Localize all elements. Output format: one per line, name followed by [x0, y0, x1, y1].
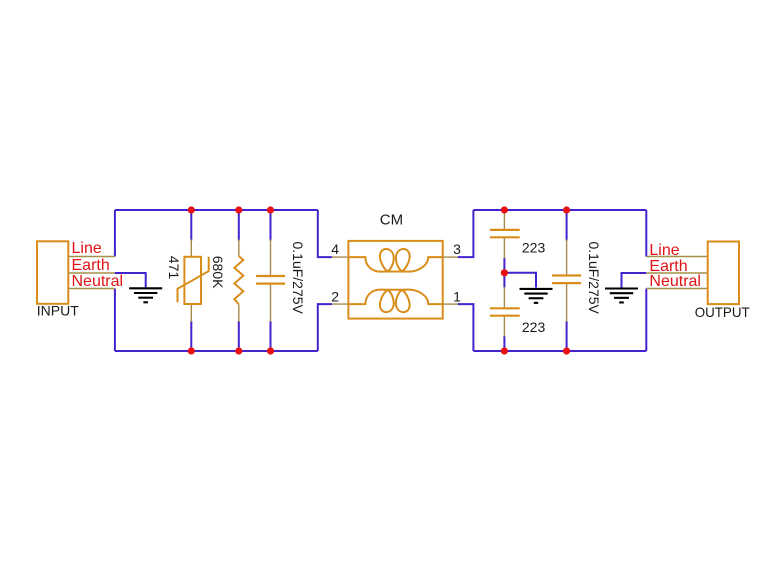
wire choke pin3 to top rail	[458, 210, 474, 257]
capacitor C4 plates	[552, 276, 581, 284]
junction dots	[188, 206, 571, 354]
wire Y-cap mid node upper	[503, 258, 505, 273]
pin stub input Neutral	[68, 288, 115, 290]
wire bottom rail left section	[115, 350, 318, 352]
node Y-cap midpoint	[501, 269, 508, 276]
node bottom rail varistor	[188, 347, 195, 354]
varistor RV1 lead bottom	[190, 304, 192, 322]
pin stub input Earth	[68, 272, 115, 274]
node bottom rail C4	[563, 347, 570, 354]
connector J2 OUTPUT box	[708, 242, 739, 305]
wire resistor bottom	[238, 321, 240, 351]
svg-text:471: 471	[166, 256, 182, 280]
choke pin 2 lead	[332, 303, 349, 305]
node top rail resistor	[235, 206, 242, 213]
svg-text:0.1uF/275V: 0.1uF/275V	[586, 242, 602, 315]
choke pin 4 lead	[332, 256, 349, 258]
node bottom rail C3	[501, 347, 508, 354]
svg-text:Neutral: Neutral	[649, 273, 701, 290]
varistor RV1 body	[178, 257, 209, 304]
node top rail C2	[501, 206, 508, 213]
choke bottom winding	[348, 290, 442, 313]
wire right X-cap top	[566, 210, 568, 241]
wire right vertical Neutral to bottom rail	[645, 289, 647, 352]
svg-text:0.1uF/275V: 0.1uF/275V	[290, 242, 306, 315]
wire left vertical Line to top rail	[114, 210, 116, 257]
common-mode choke CM body	[348, 241, 442, 319]
svg-text:Neutral: Neutral	[72, 273, 124, 290]
capacitor C4 lead bottom	[566, 284, 568, 322]
svg-text:INPUT: INPUT	[37, 302, 79, 318]
wire choke pin2 to bottom rail	[318, 304, 332, 351]
wire left X-cap bottom	[270, 321, 272, 351]
wire varistor top	[190, 210, 192, 241]
wire choke pin1 to bottom rail	[458, 304, 474, 351]
choke pin 1 lead	[443, 303, 458, 305]
capacitor C1 lead top	[270, 240, 272, 275]
capacitor C2 lead lower	[503, 238, 505, 259]
wire right X-cap bottom	[566, 321, 568, 351]
capacitor C2 (223 top) lead upper	[503, 211, 505, 229]
pin stub output Line	[646, 256, 708, 258]
svg-text:4: 4	[331, 241, 339, 257]
node bottom rail C1	[267, 347, 274, 354]
wire input earth to ground	[115, 273, 146, 287]
ground center	[520, 289, 553, 303]
capacitor C2 plates	[490, 230, 520, 237]
capacitor C4 lead top	[566, 240, 568, 275]
node top rail varistor	[188, 206, 195, 213]
choke top winding	[348, 249, 442, 272]
node top rail C1	[267, 206, 274, 213]
pin stub output Earth	[646, 272, 708, 274]
svg-text:1: 1	[453, 288, 461, 304]
wire bottom rail right section	[473, 350, 646, 352]
node top rail C4	[563, 206, 570, 213]
svg-text:Earth: Earth	[72, 257, 110, 274]
wire top rail right section	[473, 209, 646, 211]
ground output earth	[605, 289, 638, 303]
wire choke pin4 to top rail	[318, 210, 332, 257]
resistor R1 lead bottom	[238, 304, 240, 322]
wire left vertical Neutral to bottom rail	[114, 289, 116, 352]
wire output earth to ground	[622, 273, 647, 288]
svg-text:Line: Line	[649, 242, 679, 259]
capacitor C1 lead bottom	[270, 285, 272, 322]
svg-text:223: 223	[522, 240, 546, 256]
svg-text:2: 2	[331, 288, 339, 304]
node bottom rail resistor	[235, 347, 242, 354]
svg-text:3: 3	[453, 241, 461, 257]
wire varistor bottom	[190, 321, 192, 351]
varistor RV1 lead top	[190, 240, 192, 257]
capacitor C1 plates	[256, 276, 285, 284]
wire resistor top	[238, 210, 240, 241]
resistor R1 zigzag	[234, 256, 243, 304]
pin stub input Line	[68, 256, 115, 258]
wire right vertical top rail to Line	[645, 210, 647, 257]
choke pin 3 lead	[443, 256, 458, 258]
wire Y-cap bottom to rail	[503, 336, 505, 351]
wire left X-cap top	[270, 210, 272, 241]
wire mid node to center ground	[504, 273, 536, 288]
svg-text:CM: CM	[380, 211, 403, 228]
pin stub output Neutral	[646, 288, 708, 290]
ground input earth	[129, 288, 162, 302]
connector J1 INPUT box	[37, 241, 68, 303]
svg-text:OUTPUT: OUTPUT	[695, 304, 750, 320]
resistor R1 lead top	[238, 240, 240, 257]
capacitor C3 lead lower	[503, 316, 505, 336]
capacitor C3 (223 bottom) lead upper	[503, 287, 505, 308]
wire top rail left section	[115, 209, 318, 211]
wire Y-cap mid node lower	[503, 273, 505, 288]
svg-text:680K: 680K	[210, 256, 226, 289]
svg-text:223: 223	[522, 319, 546, 335]
capacitor C3 plates	[490, 308, 520, 315]
svg-text:Line: Line	[72, 240, 102, 257]
